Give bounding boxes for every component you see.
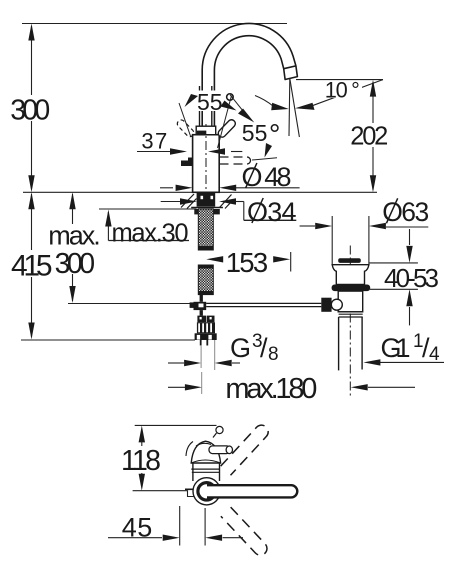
dashed swivel bars [221, 422, 271, 475]
left lever dashed [176, 118, 195, 138]
svg-text:max.: max. [48, 220, 101, 250]
lower cylinder [338, 291, 363, 312]
dimension max.415 [31, 194, 33, 337]
horizontal rod to drain [206, 302, 321, 304]
svg-text:153: 153 [226, 247, 269, 278]
Ø34 arrows [161, 201, 182, 203]
coupling rings [339, 311, 363, 313]
hose stubs below nut [200, 340, 202, 346]
415 bottom reference line [21, 339, 195, 341]
dimension 300 vertical line [31, 26, 33, 189]
counter bottom line [99, 208, 197, 210]
body sides [192, 463, 194, 481]
aerator band top edge [284, 66, 296, 69]
svg-text:max.180: max.180 [225, 373, 317, 405]
lever grip cylinder [209, 446, 230, 454]
svg-text:10 °: 10 ° [325, 77, 360, 102]
right leader arrow of 10deg [312, 80, 383, 106]
10 deg dim line [296, 79, 383, 81]
side tab [181, 158, 193, 167]
centerline [205, 124, 207, 250]
55deg #1 annotation [196, 91, 227, 112]
spout tube (outline) [202, 23, 297, 134]
inner arcs [196, 443, 211, 446]
svg-text:O34: O34 [247, 197, 297, 227]
dimension 202 [372, 82, 374, 190]
locknut blocks [194, 209, 200, 214]
flange top outline [332, 265, 369, 285]
svg-text:G: G [230, 333, 251, 363]
dome [191, 441, 220, 463]
dim 153 [206, 256, 223, 262]
diameter slash extensions [246, 163, 257, 188]
counter top line [23, 191, 377, 193]
hatched counter section left/right of hole [181, 194, 233, 209]
svg-text:O63: O63 [382, 197, 429, 227]
hook circle at line end [216, 426, 223, 433]
svg-text:8: 8 [268, 344, 279, 365]
supply level line at y=303 [68, 303, 190, 305]
bottom ref line [133, 491, 194, 497]
svg-text:G1: G1 [381, 333, 411, 363]
G3/8 dim arrows [200, 345, 202, 368]
big nut [195, 333, 217, 340]
black ring [332, 285, 371, 292]
dim 118 [139, 425, 145, 442]
lever up position [199, 86, 201, 126]
arrow up tip at top line [28, 24, 34, 41]
threaded shank segment 1 [198, 209, 213, 250]
extension lines up [331, 216, 333, 264]
svg-text:/: / [260, 333, 268, 363]
base circles [193, 478, 220, 505]
svg-text:37: 37 [141, 129, 167, 154]
flange bottom line [191, 207, 223, 209]
svg-text:300: 300 [10, 95, 50, 127]
cap [196, 126, 216, 135]
svg-text:40-53: 40-53 [384, 263, 439, 293]
Ø63 dim [300, 225, 315, 227]
svg-text:max.30: max.30 [112, 219, 189, 247]
svg-text:118: 118 [121, 445, 161, 477]
arrow down tip at counter [28, 175, 34, 192]
svg-text:202: 202 [350, 122, 388, 150]
mounting nut black [197, 193, 216, 207]
svg-text:300: 300 [55, 248, 96, 280]
dimension max.30 (counter thickness) [107, 212, 109, 241]
plug black band [338, 258, 361, 263]
40-53 dim [369, 262, 418, 264]
top reference line (spout top level) [22, 23, 287, 25]
dashed swivel spout lines [220, 157, 248, 164]
svg-text:415: 415 [11, 249, 53, 282]
tailpipe [338, 317, 340, 370]
body cylinder [193, 135, 220, 193]
Ø34 label with underline leader [243, 202, 245, 221]
left arc arrow of 10deg [255, 96, 273, 107]
10 degree indicator lines [288, 79, 291, 136]
solid spout bar [207, 485, 297, 497]
hose end fitting [197, 316, 206, 323]
band [191, 460, 220, 463]
left knob [321, 298, 331, 312]
dimension max.300 [72, 194, 74, 301]
threaded shank segment 2 [198, 265, 213, 295]
cross joint [194, 302, 207, 310]
pop-up rod vertical stem [200, 295, 203, 302]
drain centerline [349, 246, 351, 397]
max.180 dim [201, 372, 203, 394]
top ref line [135, 424, 217, 426]
right lever 55deg [217, 118, 237, 138]
